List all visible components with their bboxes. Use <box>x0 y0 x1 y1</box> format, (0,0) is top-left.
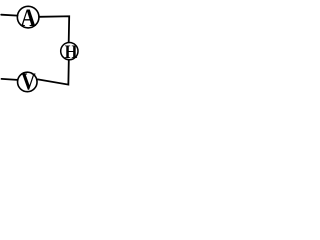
wire W2 (ammeter A to lamp H via top-right corner) <box>40 16 70 42</box>
voltmeter V <box>18 72 38 92</box>
wire W4 (left lead of voltmeter V) <box>2 79 18 80</box>
svg-text:H: H <box>65 42 78 63</box>
lamp H <box>61 42 78 59</box>
wire W3 (lamp H down to bottom corner, then up-left to voltmeter V) <box>38 60 69 84</box>
ammeter A <box>17 6 39 28</box>
svg-text:V: V <box>21 69 36 96</box>
wire W1 (left lead of ammeter A) <box>1 14 17 17</box>
svg-text:A: A <box>20 5 36 32</box>
